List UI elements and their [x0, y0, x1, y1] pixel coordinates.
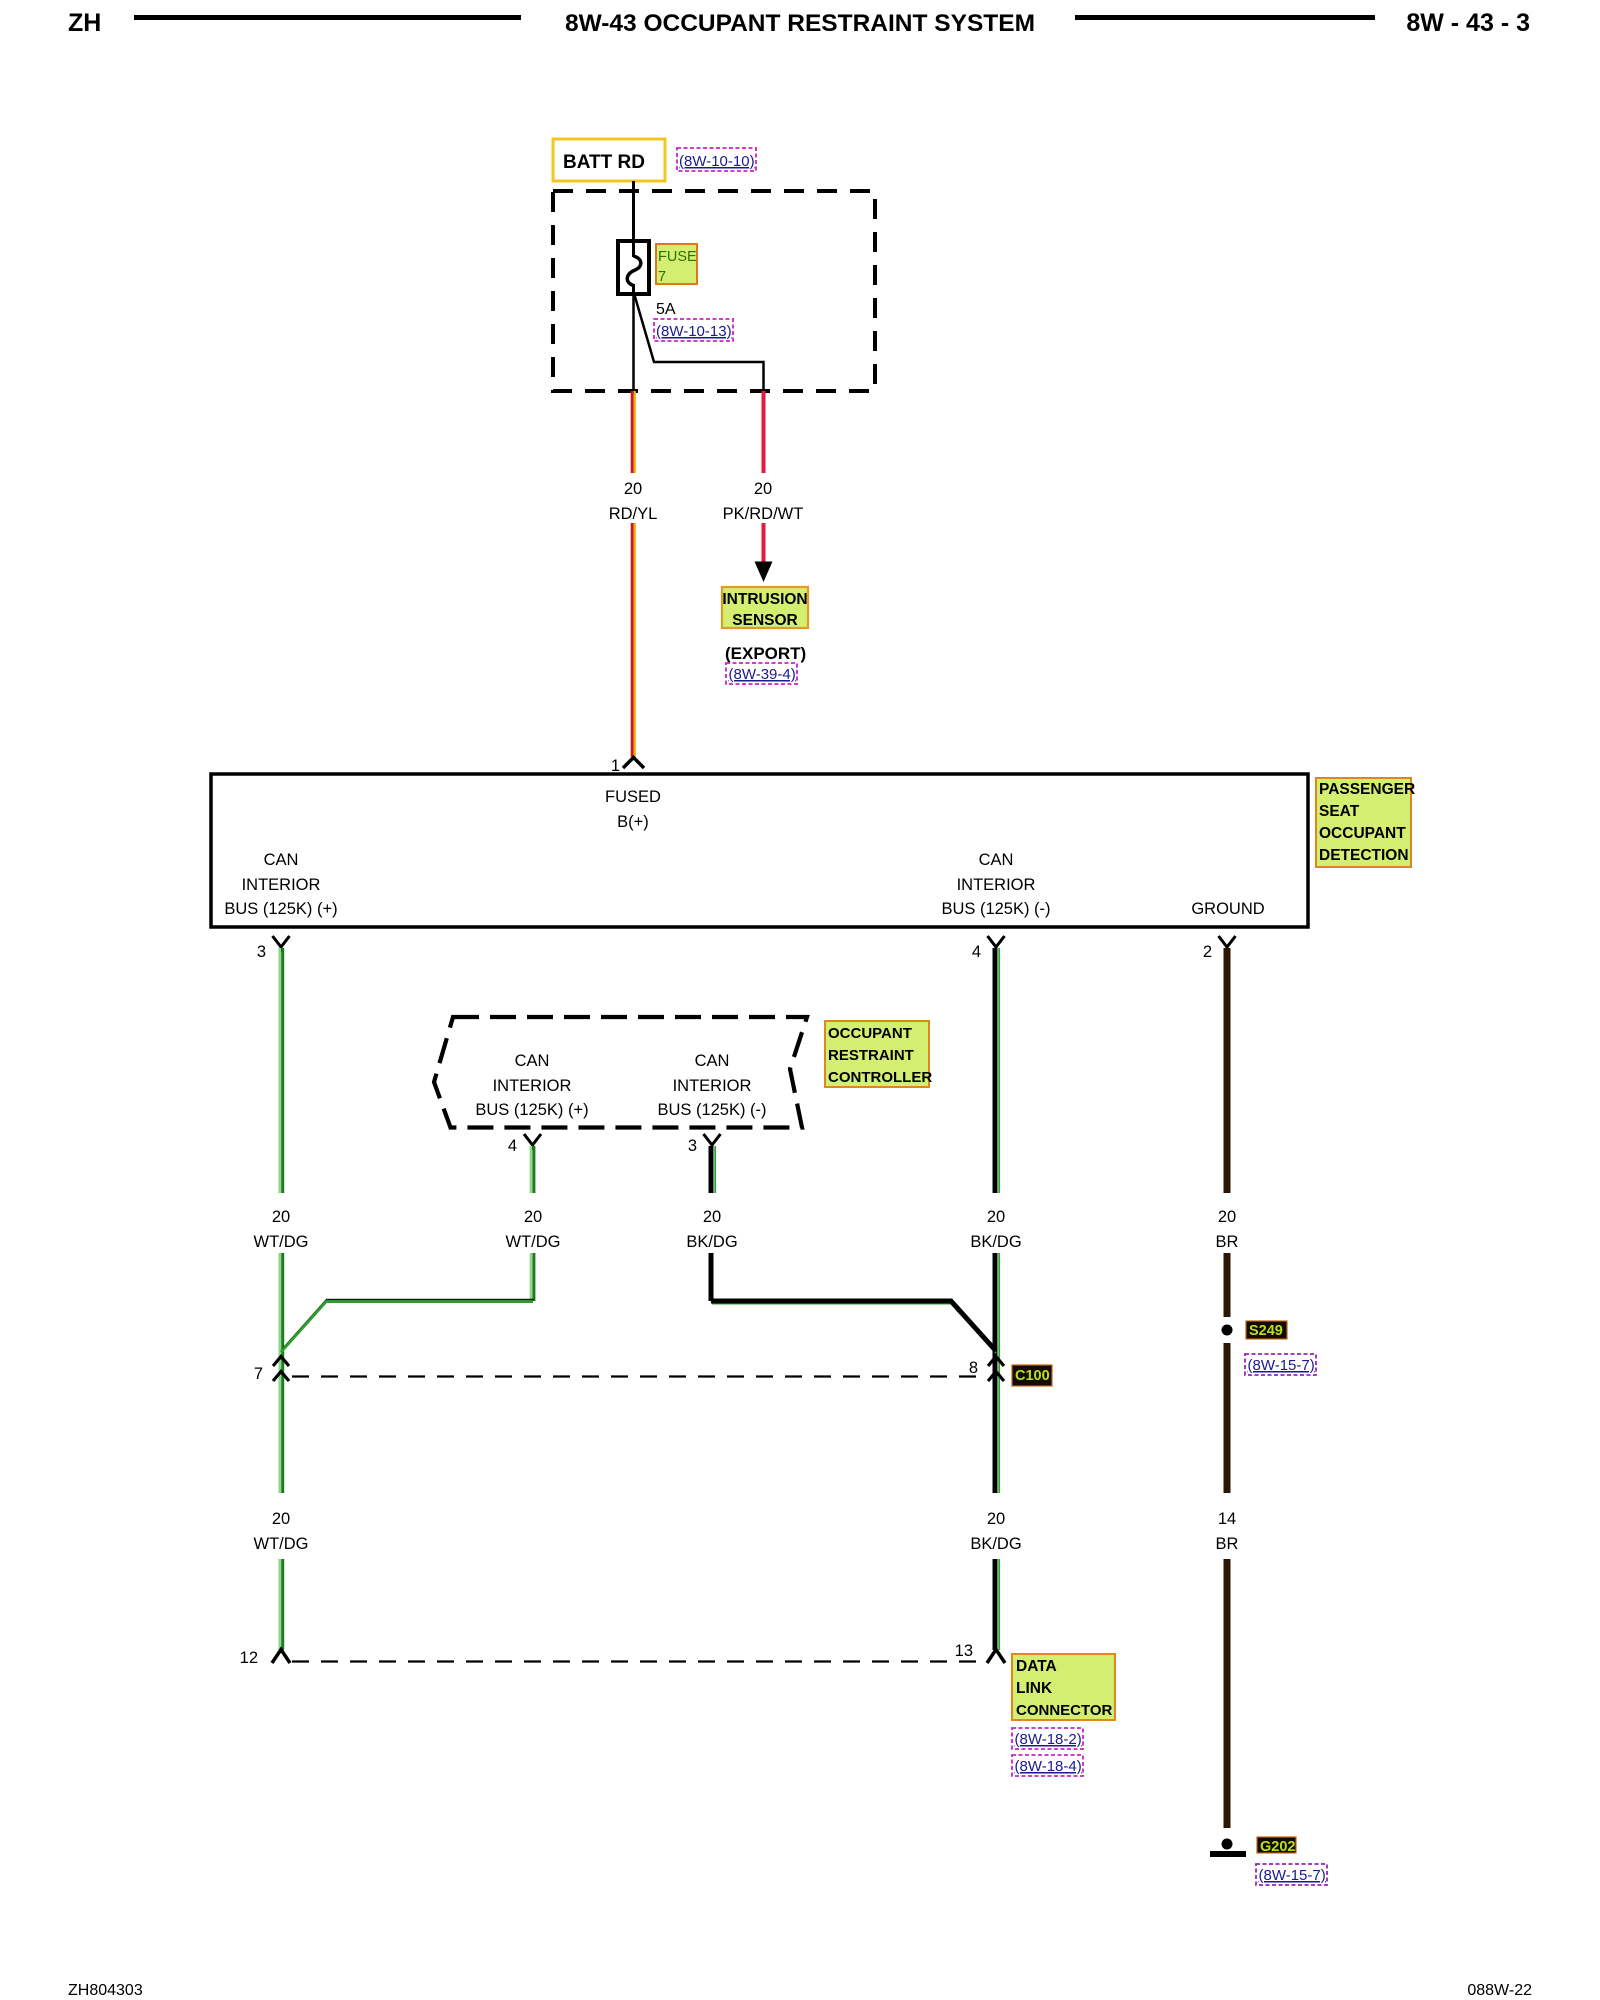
- svg-text:(8W-10-10): (8W-10-10): [679, 153, 755, 170]
- svg-text:INTRUSION: INTRUSION: [722, 591, 807, 608]
- svg-text:20: 20: [272, 1208, 290, 1226]
- svg-text:7: 7: [254, 1365, 263, 1383]
- svg-text:B(+): B(+): [617, 813, 649, 831]
- svg-text:BUS (125K) (+): BUS (125K) (+): [475, 1101, 588, 1119]
- svg-text:BR: BR: [1216, 1535, 1239, 1553]
- svg-text:CAN: CAN: [515, 1052, 550, 1070]
- svg-text:5A: 5A: [656, 301, 676, 318]
- wire PK/RD/WT upper segment: [762, 391, 766, 473]
- wire BK/DG main lower to C100: [995, 1253, 999, 1493]
- svg-text:BK/DG: BK/DG: [686, 1233, 737, 1251]
- link 8W-15-7 (splice): [1245, 1354, 1316, 1375]
- ground G202: [1222, 1839, 1233, 1850]
- svg-text:20: 20: [272, 1510, 290, 1528]
- wire fuse output straight down: [632, 294, 635, 394]
- svg-text:20: 20: [754, 480, 772, 498]
- header rule right: [1075, 15, 1375, 20]
- link 8W-18-4: [1012, 1755, 1083, 1776]
- wire fuse output branch to intrusion sensor feed: [635, 295, 764, 394]
- svg-text:(8W-39-4): (8W-39-4): [729, 666, 796, 683]
- wire WT/DG main lower to C100: [280, 1253, 283, 1493]
- link 8W-10-13: [654, 319, 733, 341]
- connector label C100: [1012, 1365, 1052, 1386]
- fuse F7: [618, 241, 649, 294]
- svg-text:8W-43 OCCUPANT RESTRAINT SYSTE: 8W-43 OCCUPANT RESTRAINT SYSTEM: [565, 10, 1035, 37]
- svg-text:OCCUPANT: OCCUPANT: [1319, 825, 1406, 842]
- svg-text:C100: C100: [1015, 1368, 1050, 1384]
- intrusion sensor label: [722, 587, 808, 628]
- svg-text:CONNECTOR: CONNECTOR: [1016, 1702, 1113, 1719]
- wire WT/DG to DLC: [280, 1559, 283, 1650]
- svg-text:S249: S249: [1249, 1323, 1283, 1339]
- link 8W-10-10: [677, 148, 756, 171]
- wire BR from pin 2 upper: [1224, 948, 1231, 1193]
- svg-text:DETECTION: DETECTION: [1319, 847, 1409, 864]
- data link connector label: [1012, 1654, 1115, 1720]
- power distribution center dashed box: [553, 191, 875, 391]
- svg-text:4: 4: [972, 943, 981, 961]
- wire RD/YL upper segment: [632, 391, 635, 473]
- svg-text:20: 20: [703, 1208, 721, 1226]
- svg-text:SEAT: SEAT: [1319, 803, 1360, 820]
- svg-text:ZH: ZH: [68, 9, 101, 37]
- svg-text:RESTRAINT: RESTRAINT: [828, 1047, 914, 1064]
- wire PK/RD/WT lower segment: [762, 523, 766, 563]
- svg-text:PASSENGER: PASSENGER: [1319, 781, 1415, 798]
- wire BR to ground: [1224, 1559, 1231, 1828]
- svg-text:WT/DG: WT/DG: [506, 1233, 561, 1251]
- svg-text:FUSED: FUSED: [605, 788, 661, 806]
- svg-text:20: 20: [1218, 1208, 1236, 1226]
- wire WT/DG branch from ORC joining main: [281, 1253, 534, 1352]
- svg-text:(8W-15-7): (8W-15-7): [1248, 1357, 1315, 1374]
- svg-text:BATT RD: BATT RD: [563, 152, 645, 173]
- svg-text:WT/DG: WT/DG: [254, 1535, 309, 1553]
- svg-text:20: 20: [987, 1208, 1005, 1226]
- svg-text:WT/DG: WT/DG: [254, 1233, 309, 1251]
- svg-text:088W-22: 088W-22: [1467, 1982, 1532, 1999]
- svg-text:4: 4: [508, 1137, 517, 1155]
- svg-text:20: 20: [524, 1208, 542, 1226]
- svg-text:INTERIOR: INTERIOR: [242, 876, 321, 894]
- wire BK/DG to DLC: [995, 1559, 999, 1650]
- svg-text:OCCUPANT: OCCUPANT: [828, 1025, 912, 1042]
- svg-text:PK/RD/WT: PK/RD/WT: [723, 505, 804, 523]
- svg-text:20: 20: [624, 480, 642, 498]
- svg-text:7: 7: [658, 269, 666, 285]
- wire RD/YL lower segment: [632, 523, 635, 757]
- battery feed box BATT RD: [553, 139, 665, 181]
- data link connector dashed line: [292, 1660, 985, 1662]
- svg-text:DATA: DATA: [1016, 1658, 1057, 1675]
- svg-text:(EXPORT): (EXPORT): [725, 644, 806, 663]
- svg-text:INTERIOR: INTERIOR: [493, 1077, 572, 1095]
- svg-text:8: 8: [969, 1359, 978, 1377]
- wire WT/DG from pin 3 upper: [280, 948, 283, 1193]
- svg-text:2: 2: [1203, 943, 1212, 961]
- svg-text:(8W-18-2): (8W-18-2): [1015, 1731, 1082, 1748]
- svg-text:8W - 43 - 3: 8W - 43 - 3: [1406, 9, 1530, 37]
- svg-text:12: 12: [240, 1649, 258, 1667]
- svg-text:INTERIOR: INTERIOR: [673, 1077, 752, 1095]
- wire WT/DG from ORC pin 4: [531, 1146, 534, 1193]
- svg-text:CONTROLLER: CONTROLLER: [828, 1069, 932, 1086]
- svg-text:BUS (125K) (-): BUS (125K) (-): [657, 1101, 766, 1119]
- wire BK/DG branch from ORC joining main: [711, 1253, 996, 1353]
- svg-text:CAN: CAN: [979, 851, 1014, 869]
- header rule left: [134, 15, 521, 20]
- svg-text:(8W-18-4): (8W-18-4): [1015, 1758, 1082, 1775]
- wire BK/DG from ORC pin 3: [711, 1146, 715, 1193]
- svg-text:INTERIOR: INTERIOR: [957, 876, 1036, 894]
- svg-text:BK/DG: BK/DG: [970, 1233, 1021, 1251]
- wire BR below splice: [1224, 1343, 1231, 1493]
- svg-text:BUS (125K) (-): BUS (125K) (-): [941, 900, 1050, 918]
- passenger seat occupant detection module box: [211, 774, 1308, 927]
- svg-text:20: 20: [987, 1510, 1005, 1528]
- svg-text:GROUND: GROUND: [1191, 900, 1264, 918]
- connector C100 dashed line: [292, 1375, 985, 1377]
- occupant restraint controller dashed outline: [434, 1017, 807, 1128]
- svg-text:SENSOR: SENSOR: [732, 612, 797, 629]
- svg-text:FUSE: FUSE: [658, 249, 697, 265]
- svg-text:BK/DG: BK/DG: [970, 1535, 1021, 1553]
- svg-text:LINK: LINK: [1016, 1680, 1053, 1697]
- occupant restraint controller label: [825, 1021, 929, 1087]
- svg-text:13: 13: [955, 1642, 973, 1660]
- link 8W-39-4: [726, 663, 797, 684]
- splice S249: [1222, 1325, 1233, 1336]
- svg-text:3: 3: [688, 1137, 697, 1155]
- svg-text:(8W-10-13): (8W-10-13): [656, 323, 732, 340]
- link 8W-18-2: [1012, 1728, 1083, 1749]
- wire battery to fuse: [632, 181, 635, 257]
- fuse label FUSE 7: [656, 244, 697, 284]
- wire BK/DG from pin 4 upper: [995, 948, 999, 1193]
- svg-text:3: 3: [257, 943, 266, 961]
- svg-text:RD/YL: RD/YL: [609, 505, 658, 523]
- svg-text:CAN: CAN: [264, 851, 299, 869]
- svg-text:BUS (125K) (+): BUS (125K) (+): [224, 900, 337, 918]
- link 8W-15-7 (ground): [1256, 1864, 1327, 1885]
- svg-text:BR: BR: [1216, 1233, 1239, 1251]
- svg-text:G202: G202: [1260, 1839, 1295, 1855]
- svg-text:CAN: CAN: [695, 1052, 730, 1070]
- arrow to intrusion sensor: [755, 562, 773, 583]
- svg-text:ZH804303: ZH804303: [68, 1982, 143, 1999]
- svg-text:14: 14: [1218, 1510, 1236, 1528]
- wire BR to splice S249: [1224, 1253, 1231, 1317]
- passenger seat occupant detection label: [1316, 778, 1411, 867]
- svg-text:(8W-15-7): (8W-15-7): [1259, 1867, 1326, 1884]
